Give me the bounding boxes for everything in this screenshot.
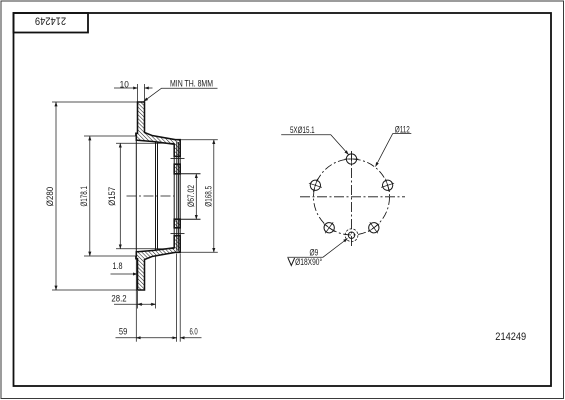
hat mounting face inner line [173,144,175,248]
leaders right view [281,134,411,258]
label dia18X90 countersink [295,257,322,267]
axis centerline [127,195,175,197]
dia157 dim line [119,143,121,248]
svg-text:Ø168.5: Ø168.5 [203,185,214,206]
label dia112 [395,124,410,135]
svg-text:214249: 214249 [495,331,526,343]
dia157 extension lines [116,142,174,144]
dim text dia157 [106,187,117,206]
bolt holes 5 x dia15.1 [307,152,396,237]
dim text 28.2 [111,293,126,304]
svg-text:Ø67.02: Ø67.02 [186,185,196,207]
hat back face line [178,142,180,251]
bolt circle dia112 (dash-dot) [314,159,390,235]
svg-text:5XØ15.1: 5XØ15.1 [290,125,315,136]
hat mounting face outer line [179,140,181,253]
leader 5Xdia15.1 [281,135,348,155]
dim text dia178.1 [79,186,90,207]
dia168.5 dim line [213,140,215,253]
projection / edge lines [136,135,200,257]
bolt hole upper-right [379,177,396,194]
section: top half (ring + shoulder + hat wall) [136,102,180,156]
dim 28.2 ext [137,291,139,309]
dim 1.8 [111,273,138,275]
bolt hole centerlines in section [171,158,185,233]
bolt hole upper-left [307,177,324,194]
bolt hole lower-right [364,218,383,237]
svg-text:Ø18X90°: Ø18X90° [295,257,322,267]
dia178.1 dim line [89,136,91,256]
note MIN TH. 8MM [170,79,213,89]
dim text dia280 [44,187,55,207]
dim text 1.8 [112,260,122,271]
title box top-left [14,13,89,33]
dim text dia168.5 [203,185,214,206]
hat pilot recess line [176,142,178,251]
set screw hole dia9 with dia18 countersink [348,232,354,238]
svg-text:6.0: 6.0 [189,326,198,337]
svg-text:Ø112: Ø112 [395,124,410,135]
svg-text:28.2: 28.2 [111,293,126,304]
dim 28.2 line [114,303,156,305]
svg-text:Ø157: Ø157 [106,187,117,206]
leader dia9 [287,239,347,258]
shoulder inner bend projection lines [155,142,157,250]
leader MIN TH 8MM [144,88,218,101]
svg-text:214249: 214249 [35,14,66,26]
section: hat wall piece between bore and bolt hole (bottom) [174,219,180,228]
countersink V symbol [288,258,295,266]
section: hat wall piece between bolt hole and bore (top) [174,164,180,174]
bolt hole top [345,152,359,166]
label dia9 [310,248,319,258]
hat flange rim edge [135,135,137,257]
svg-text:Ø280: Ø280 [44,187,55,207]
svg-text:1.8: 1.8 [112,260,122,271]
dim 59 line [116,337,177,339]
svg-text:10: 10 [120,79,129,90]
dim text 6.0 [189,326,198,337]
dim text 10 [120,79,129,90]
dim 59 / 6.0 ext [135,259,137,342]
part number top-left (rotated 180) [35,14,66,26]
horizontal centerline [300,196,405,198]
dia67.02 dim line [195,174,197,219]
bolt hole edges in section [174,155,180,157]
part number bottom-right [495,331,526,343]
svg-text:MIN TH. 8MM: MIN TH. 8MM [170,79,213,89]
dim text dia67.02 [186,185,196,207]
label 5Xdia15.1 [290,125,315,136]
dia168.5 extension lines [180,139,218,141]
dim 10 extension lines [137,84,139,102]
vertical centerline [351,151,353,249]
dia280 dim line [55,102,57,290]
bolt hole lower-left [320,218,339,237]
section: bottom half (ring + shoulder + hat wall) [136,236,180,290]
dim 6.0 line [180,337,201,339]
leader dia112 [376,134,412,167]
dia178.1 extension lines [84,135,136,137]
bore edges (also ext lines for dia 67.02) [174,173,200,175]
dia280 extension lines [52,101,137,103]
dim 10 lines [114,87,138,89]
svg-text:59: 59 [119,326,128,337]
svg-text:Ø178.1: Ø178.1 [79,186,90,207]
dim text 59 [119,326,128,337]
